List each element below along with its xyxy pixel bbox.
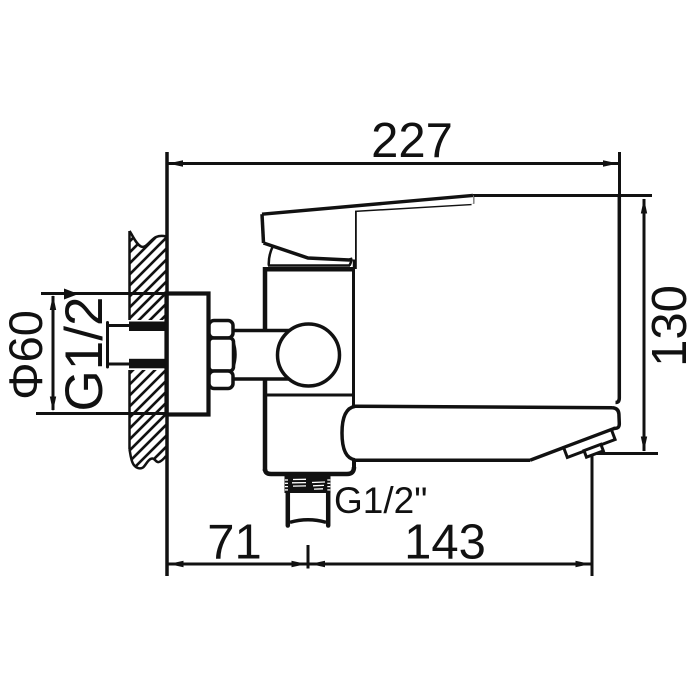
dim 227 line: [168, 162, 618, 165]
shower outlet nipple: [289, 493, 327, 521]
svg-text:130: 130: [643, 285, 697, 367]
housing bottom / spout top: [354, 406, 613, 408]
valve body right edge: [352, 267, 356, 406]
lever left edge: [262, 214, 264, 243]
aerator: [564, 430, 618, 464]
dim 130 line: [643, 199, 646, 451]
valve body divider line: [266, 394, 353, 397]
wall hatch section: [0, 220, 393, 480]
wall left edge: [128, 231, 131, 449]
diverter circle: [278, 324, 340, 386]
spout left end arc: [342, 406, 355, 459]
inlet pipe lines inside body: [263, 329, 290, 333]
lever bottom edge: [264, 243, 353, 260]
hex nut: [209, 321, 235, 389]
housing top line with 130 extension: [473, 194, 652, 197]
supply pipe end cap: [106, 323, 109, 368]
dome left arc: [269, 247, 273, 266]
dim 227 extension right: [618, 152, 621, 199]
spout slanted underside: [530, 428, 615, 460]
supply pipe bottom line: [107, 363, 167, 366]
cartridge dome collar: [268, 264, 350, 267]
valve body fill: [263, 267, 356, 476]
dim line 71 and 143: [168, 563, 591, 566]
wall torn bottom edge: [130, 449, 167, 468]
spout tip edge: [613, 408, 620, 429]
svg-text:227: 227: [371, 114, 453, 168]
valve body bottom edge: [265, 467, 354, 474]
G1/2 wall-pipe label: [55, 297, 114, 412]
dim 71/143 shared tick: [307, 545, 310, 569]
svg-text:Φ60: Φ60: [0, 310, 52, 400]
phi60 extension line bottom: [36, 412, 207, 415]
spout bottom edge: [354, 459, 530, 463]
handle lever fill: [262, 196, 474, 260]
escutcheon plate: [167, 294, 209, 415]
valve body right edge lower: [352, 460, 356, 469]
leader arrow blob: [64, 289, 79, 300]
housing tip step: [471, 196, 474, 204]
phi60 label: [0, 310, 52, 400]
dim 130 text: [643, 285, 697, 367]
eccentric pipe to body: [233, 333, 266, 378]
valve body left edge lower: [263, 378, 268, 472]
valve body left edge upper: [263, 267, 268, 332]
dim 130 bottom extension: [597, 452, 658, 455]
valve body top edge: [263, 267, 356, 272]
pipe thread lower band: [129, 359, 165, 369]
housing left edge: [353, 211, 357, 269]
dim 143 extension right: [591, 455, 594, 576]
supply pipe white cutout: [105, 320, 167, 370]
wall torn top edge: [130, 231, 167, 247]
lever top edge: [262, 195, 473, 214]
dome right arc: [350, 252, 352, 266]
phi60 extension line top: [41, 292, 207, 295]
housing right edge: [616, 196, 620, 403]
svg-text:143: 143: [404, 516, 486, 570]
svg-text:71: 71: [207, 516, 262, 570]
big mixer housing fill: [355, 196, 620, 408]
supply pipe top line: [107, 324, 167, 327]
pipe thread upper band: [129, 322, 165, 332]
dim 227 extension left / wall face line: [165, 152, 169, 576]
housing sloped top: [355, 204, 472, 211]
shower outlet thread: [285, 475, 331, 493]
phi60 dimension line: [52, 296, 55, 410]
